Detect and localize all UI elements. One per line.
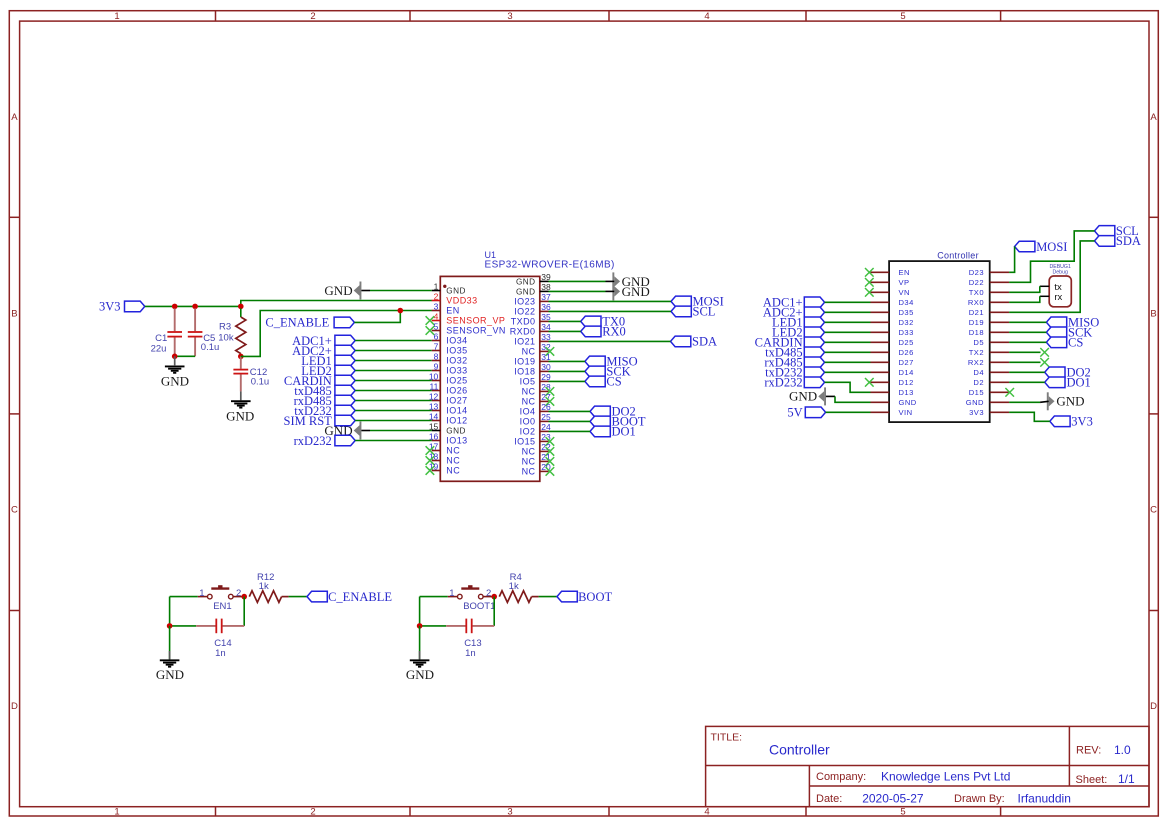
svg-text:VIN: VIN bbox=[899, 408, 913, 417]
wire CARDIN to U1 pin 10 bbox=[355, 380, 432, 382]
junction C1 bottom bbox=[172, 354, 178, 360]
resistor R12 bbox=[249, 591, 281, 603]
svg-text:IO22: IO22 bbox=[514, 307, 535, 317]
port SIM RST bbox=[335, 415, 355, 426]
svg-text:GND: GND bbox=[226, 408, 254, 423]
svg-text:GND: GND bbox=[622, 284, 650, 299]
svg-text:GND: GND bbox=[789, 389, 817, 404]
wire GND flag to controller GND pin bbox=[826, 395, 835, 397]
wire U1 pin 37 to MOSI bbox=[549, 300, 672, 302]
svg-text:8: 8 bbox=[434, 351, 439, 361]
U1 pin 32 NC bbox=[540, 350, 549, 352]
wire EN net from R3 bottom to pin 3 bbox=[241, 311, 432, 357]
junction EN1 node bbox=[241, 594, 247, 600]
svg-text:B: B bbox=[11, 308, 17, 319]
capacitor C1 bbox=[174, 308, 176, 331]
power flag GND at U1 pin 15 bbox=[360, 422, 362, 440]
svg-text:NC: NC bbox=[522, 457, 536, 467]
svg-text:NC: NC bbox=[446, 456, 460, 466]
port SDA bbox=[671, 336, 691, 347]
Controller left pin D33 bbox=[871, 331, 890, 333]
Controller left pin D35 bbox=[871, 311, 890, 313]
wire GND flag to pin 1 bbox=[361, 290, 370, 292]
port DO2 controller bbox=[1045, 367, 1065, 378]
svg-text:GND: GND bbox=[446, 287, 466, 296]
svg-text:IO23: IO23 bbox=[514, 297, 535, 307]
U1 pin 33 IO21 bbox=[540, 340, 549, 342]
svg-text:GND: GND bbox=[161, 373, 189, 388]
port BOOT bbox=[590, 416, 610, 427]
svg-text:EN: EN bbox=[899, 268, 910, 277]
U1 pin 39 GND bbox=[540, 280, 549, 282]
port ADC2+ controller bbox=[804, 307, 824, 318]
svg-text:Controller: Controller bbox=[769, 742, 830, 758]
svg-text:NC: NC bbox=[446, 466, 460, 476]
svg-text:GND: GND bbox=[156, 667, 184, 682]
port ADC2+ bbox=[335, 345, 355, 356]
U1 pin 28 NC bbox=[540, 390, 549, 392]
svg-text:VDD33: VDD33 bbox=[446, 296, 477, 306]
port ADC1+ controller bbox=[804, 297, 824, 308]
Controller right pin RX0 bbox=[990, 301, 1009, 303]
svg-text:1: 1 bbox=[449, 588, 454, 599]
svg-text:Irfanuddin: Irfanuddin bbox=[1018, 792, 1071, 806]
svg-text:Knowledge Lens Pvt Ltd: Knowledge Lens Pvt Ltd bbox=[881, 769, 1010, 783]
svg-text:SCL: SCL bbox=[693, 305, 716, 319]
svg-text:ESP32-WROVER-E(16MB): ESP32-WROVER-E(16MB) bbox=[485, 260, 615, 271]
U1 pin 18 NC bbox=[432, 460, 441, 462]
wire BOOT1 left vertical bbox=[419, 597, 421, 626]
U1 pin 16 IO13 bbox=[432, 440, 441, 442]
U1 pin 22 NC bbox=[540, 450, 549, 452]
wire 3V3 to VDD33 pin 2 bbox=[241, 301, 432, 307]
svg-text:D35: D35 bbox=[899, 308, 914, 317]
svg-text:IO14: IO14 bbox=[446, 406, 467, 416]
U1 pin 27 NC bbox=[540, 400, 549, 402]
svg-text:3: 3 bbox=[507, 806, 512, 817]
Controller left pin D13 bbox=[871, 391, 890, 393]
svg-text:VN: VN bbox=[899, 288, 910, 297]
no-connect X Controller VN bbox=[865, 288, 874, 297]
ground GND EN1 bbox=[169, 626, 171, 659]
svg-text:1n: 1n bbox=[465, 648, 476, 659]
Controller right pin D21 bbox=[990, 311, 1009, 313]
svg-text:1.0: 1.0 bbox=[1114, 743, 1131, 757]
U1 pin 21 NC bbox=[540, 460, 549, 462]
port CARDIN controller bbox=[804, 337, 824, 348]
wire U1 pin 30 to SCK bbox=[549, 370, 585, 372]
wire TX0 to DEBUG1 tx bbox=[1009, 286, 1040, 292]
svg-text:NC: NC bbox=[522, 397, 536, 407]
svg-text:IO34: IO34 bbox=[446, 336, 467, 346]
svg-text:IO25: IO25 bbox=[446, 376, 467, 386]
svg-text:VP: VP bbox=[899, 278, 910, 287]
svg-text:IO32: IO32 bbox=[446, 356, 467, 366]
svg-text:TX2: TX2 bbox=[969, 348, 984, 357]
svg-text:NC: NC bbox=[522, 467, 536, 477]
svg-text:3V3: 3V3 bbox=[99, 300, 121, 314]
pushbutton EN1 bbox=[208, 594, 213, 599]
ground GND below C12 bbox=[240, 391, 242, 400]
Controller left pin D34 bbox=[871, 301, 890, 303]
wire ADC2+ to controller bbox=[825, 311, 871, 313]
pushbutton BOOT1 bbox=[458, 594, 463, 599]
U1 pin 10 IO25 bbox=[432, 380, 441, 382]
port SCL controller bbox=[1095, 226, 1115, 237]
wire controller GND to flag bbox=[1009, 401, 1040, 403]
port LED2 controller bbox=[804, 327, 824, 338]
wire U1 pin 29 to CS bbox=[549, 380, 585, 382]
U1 pin 12 IO27 bbox=[432, 400, 441, 402]
svg-text:GND: GND bbox=[324, 283, 352, 298]
svg-text:IO5: IO5 bbox=[520, 377, 536, 387]
svg-text:2: 2 bbox=[486, 588, 491, 599]
svg-text:EN: EN bbox=[446, 306, 459, 316]
svg-text:CS: CS bbox=[606, 375, 621, 389]
wire 3V3 rail bbox=[145, 305, 241, 307]
svg-text:GND: GND bbox=[966, 398, 984, 407]
svg-text:C1: C1 bbox=[155, 333, 167, 344]
U1 pin 29 IO5 bbox=[540, 380, 549, 382]
svg-text:C_ENABLE: C_ENABLE bbox=[328, 590, 392, 604]
port CS controller bbox=[1046, 337, 1066, 348]
Controller left pin VP bbox=[871, 281, 890, 283]
U1 pin 23 IO15 bbox=[540, 440, 549, 442]
svg-text:4: 4 bbox=[704, 11, 709, 22]
svg-text:IO21: IO21 bbox=[514, 337, 535, 347]
wire BOOT1 pin2 to junction bbox=[483, 596, 494, 598]
port 3V3 controller bbox=[1050, 416, 1070, 427]
svg-text:EN1: EN1 bbox=[213, 601, 231, 612]
svg-text:IO13: IO13 bbox=[446, 436, 467, 446]
svg-text:IO2: IO2 bbox=[520, 427, 536, 437]
Controller right pin D23 bbox=[990, 271, 1009, 273]
svg-text:10k: 10k bbox=[218, 333, 234, 344]
port TX0 bbox=[581, 316, 601, 327]
no-connect X pin 20 bbox=[546, 467, 555, 476]
svg-text:C: C bbox=[1150, 505, 1157, 516]
wire TX2 stub bbox=[1009, 351, 1040, 353]
wire rxD232 to U1 pin 16 bbox=[355, 440, 432, 442]
port ADC1+ bbox=[335, 335, 355, 346]
wire ADC2+ to U1 pin 7 bbox=[355, 350, 432, 352]
U1 pin 8 IO32 bbox=[432, 360, 441, 362]
wire CARDIN to controller bbox=[825, 341, 871, 343]
resistor R4 bbox=[499, 591, 531, 603]
svg-text:D: D bbox=[1150, 701, 1157, 712]
U1 pin 31 IO19 bbox=[540, 360, 549, 362]
no-connect X RX2 bbox=[1040, 358, 1049, 367]
svg-text:1/1: 1/1 bbox=[1118, 772, 1135, 786]
junction BOOT1 node bbox=[491, 594, 497, 600]
no-connect X Controller EN bbox=[865, 268, 874, 277]
port DO2 bbox=[590, 406, 610, 417]
DEBUG1 pin tx bbox=[1040, 285, 1049, 287]
svg-text:2: 2 bbox=[310, 11, 315, 22]
svg-text:D27: D27 bbox=[899, 358, 914, 367]
wire LED1 to controller bbox=[825, 321, 871, 323]
svg-text:GND: GND bbox=[899, 398, 917, 407]
Controller right pin TX2 bbox=[990, 351, 1009, 353]
svg-text:rxD232: rxD232 bbox=[764, 376, 802, 390]
port CARDIN bbox=[335, 375, 355, 386]
no-connect X pin 23 bbox=[546, 437, 555, 446]
svg-text:NC: NC bbox=[522, 347, 536, 357]
svg-text:DO1: DO1 bbox=[1067, 376, 1091, 390]
port DO1 bbox=[590, 426, 610, 437]
power flag GND at U1 pin 39 bbox=[612, 272, 614, 290]
U1 pin 15 GND bbox=[432, 430, 441, 432]
port 3V3 input bbox=[125, 301, 145, 312]
svg-text:1: 1 bbox=[114, 11, 119, 22]
junction EN1 ground node bbox=[167, 623, 173, 629]
svg-text:D32: D32 bbox=[899, 318, 914, 327]
no-connect X pin 17 bbox=[426, 446, 435, 455]
wire EN1 left vertical bbox=[169, 597, 171, 626]
svg-text:3V3: 3V3 bbox=[969, 408, 984, 417]
svg-text:TITLE:: TITLE: bbox=[711, 731, 743, 743]
Controller left pin GND bbox=[871, 401, 890, 403]
svg-text:3V3: 3V3 bbox=[1071, 415, 1093, 429]
wire txD485 to controller bbox=[825, 351, 871, 353]
port txD485 bbox=[335, 385, 355, 396]
svg-text:D13: D13 bbox=[899, 388, 914, 397]
svg-text:5: 5 bbox=[900, 806, 905, 817]
wire txD232 to U1 pin 13 bbox=[355, 410, 432, 412]
junction C5 bbox=[192, 304, 198, 310]
svg-text:1: 1 bbox=[199, 588, 204, 599]
no-connect X pin 28 bbox=[546, 387, 555, 396]
DEBUG1 pin rx bbox=[1040, 295, 1049, 297]
svg-text:IO12: IO12 bbox=[446, 416, 467, 426]
svg-text:B: B bbox=[1150, 308, 1156, 319]
wire R4 to port bbox=[539, 596, 557, 598]
svg-text:RXD0: RXD0 bbox=[510, 327, 536, 337]
svg-text:D23: D23 bbox=[969, 268, 984, 277]
svg-text:1k: 1k bbox=[509, 581, 519, 592]
U1 pin 2 VDD33 bbox=[432, 300, 441, 302]
Controller left pin D32 bbox=[871, 321, 890, 323]
svg-text:Date:: Date: bbox=[816, 793, 842, 805]
Controller left pin D27 bbox=[871, 361, 890, 363]
U1 pin 9 IO33 bbox=[432, 370, 441, 372]
svg-text:RX0: RX0 bbox=[602, 325, 626, 339]
U1 pin 25 IO0 bbox=[540, 420, 549, 422]
svg-text:IO4: IO4 bbox=[520, 407, 536, 417]
wire LED2 to U1 pin 9 bbox=[355, 370, 432, 372]
wire GND flag to pin 15 bbox=[361, 430, 370, 432]
svg-text:Debug: Debug bbox=[1053, 269, 1068, 275]
no-connect X pin 32 bbox=[546, 347, 555, 356]
U1 pin 13 IO14 bbox=[432, 410, 441, 412]
wire ADC1+ to controller bbox=[825, 301, 871, 303]
wire U1 pin 24 to DO1 bbox=[549, 430, 591, 432]
port txD485 controller bbox=[804, 347, 824, 358]
svg-text:D19: D19 bbox=[969, 318, 984, 327]
capacitor C12 bbox=[240, 356, 242, 368]
U1 pin 14 IO12 bbox=[432, 420, 441, 422]
port LED1 bbox=[335, 355, 355, 366]
Controller left pin VIN bbox=[871, 411, 890, 413]
svg-text:D2: D2 bbox=[973, 378, 984, 387]
port rxD232 bbox=[335, 435, 355, 446]
svg-text:4: 4 bbox=[704, 806, 709, 817]
junction R3 bottom bbox=[238, 354, 244, 360]
svg-text:2020-05-27: 2020-05-27 bbox=[862, 792, 924, 806]
U1 pin 20 NC bbox=[540, 470, 549, 472]
svg-text:U1: U1 bbox=[485, 250, 497, 260]
svg-text:1n: 1n bbox=[215, 648, 226, 659]
svg-text:IO15: IO15 bbox=[514, 437, 535, 447]
wire controller to CS bbox=[1009, 341, 1046, 343]
wire LED2 to controller bbox=[825, 331, 871, 333]
wire U1 pin 34 to RX0 bbox=[549, 330, 581, 332]
connector Controller body bbox=[889, 261, 990, 422]
port txD232 bbox=[335, 405, 355, 416]
wire U1 pin 26 to DO2 bbox=[549, 410, 591, 412]
no-connect X pin 4 bbox=[426, 316, 435, 325]
Controller right pin D18 bbox=[990, 331, 1009, 333]
wire controller 3V3 to port bbox=[1009, 412, 1050, 421]
svg-text:Company:: Company: bbox=[816, 771, 866, 783]
no-connect X TX2 bbox=[1040, 348, 1049, 357]
wire SIM RST to U1 pin 14 bbox=[355, 420, 432, 422]
no-connect X pin 18 bbox=[426, 456, 435, 465]
svg-text:3: 3 bbox=[434, 301, 439, 311]
wire D23 to MOSI bbox=[1009, 247, 1015, 273]
no-connect X pin 27 bbox=[546, 397, 555, 406]
svg-text:SENSOR_VP: SENSOR_VP bbox=[446, 316, 505, 326]
wire EN1 right vertical bbox=[243, 597, 245, 626]
svg-text:2: 2 bbox=[236, 588, 241, 599]
wire BOOT1 top left bbox=[420, 596, 448, 598]
svg-text:D22: D22 bbox=[969, 278, 984, 287]
wire RX2 stub bbox=[1009, 361, 1040, 363]
power flag GND controller right bbox=[1047, 392, 1049, 410]
wire U1 pin 36 to SCL bbox=[549, 310, 672, 312]
svg-text:2: 2 bbox=[310, 806, 315, 817]
svg-text:IO18: IO18 bbox=[514, 367, 535, 377]
capacitor C5 bbox=[194, 308, 196, 331]
resistor R3 bbox=[240, 308, 242, 317]
svg-text:5V: 5V bbox=[787, 406, 802, 420]
wire LED1 to U1 pin 8 bbox=[355, 360, 432, 362]
svg-text:1: 1 bbox=[434, 281, 439, 291]
Controller left pin D26 bbox=[871, 351, 890, 353]
svg-text:GND: GND bbox=[446, 427, 466, 436]
svg-text:2: 2 bbox=[434, 291, 439, 301]
U1 pin 35 TXD0 bbox=[540, 320, 549, 322]
svg-text:D: D bbox=[11, 701, 18, 712]
svg-text:RX0: RX0 bbox=[968, 298, 984, 307]
capacitor C13 bbox=[420, 625, 447, 627]
svg-text:NC: NC bbox=[446, 446, 460, 456]
port 5V bbox=[805, 407, 825, 418]
wire txD232 to controller bbox=[825, 371, 871, 373]
svg-text:NC: NC bbox=[522, 387, 536, 397]
Controller right pin D15 bbox=[990, 391, 1009, 393]
svg-text:5: 5 bbox=[434, 321, 439, 331]
capacitor C14 bbox=[170, 625, 197, 627]
port rxD485 controller bbox=[804, 357, 824, 368]
svg-text:IO26: IO26 bbox=[446, 386, 467, 396]
svg-text:0.1u: 0.1u bbox=[251, 376, 270, 387]
junction BOOT1 ground node bbox=[417, 623, 423, 629]
wire U1 pin 35 to TX0 bbox=[549, 320, 581, 322]
wire U1 pin 33 to SDA bbox=[549, 340, 671, 342]
U1 pin 36 IO22 bbox=[540, 310, 549, 312]
U1 pin 1 marker dot bbox=[443, 285, 446, 288]
wire RX0 to DEBUG1 rx bbox=[1009, 296, 1040, 302]
port SCK controller bbox=[1046, 327, 1066, 338]
junction C_ENABLE EN bbox=[398, 308, 404, 314]
svg-text:SIM RST: SIM RST bbox=[284, 414, 333, 428]
Controller right pin D22 bbox=[990, 281, 1009, 283]
svg-text:1k: 1k bbox=[259, 581, 269, 592]
svg-text:D21: D21 bbox=[969, 308, 984, 317]
port MOSI bbox=[671, 296, 691, 307]
svg-text:REV:: REV: bbox=[1076, 745, 1101, 757]
svg-text:Sheet:: Sheet: bbox=[1076, 774, 1108, 786]
Controller right pin D4 bbox=[990, 371, 1009, 373]
svg-text:C: C bbox=[11, 505, 18, 516]
svg-text:DO1: DO1 bbox=[612, 425, 636, 439]
U1 pin 7 IO35 bbox=[432, 350, 441, 352]
svg-text:D12: D12 bbox=[899, 378, 914, 387]
U1 pin 34 RXD0 bbox=[540, 330, 549, 332]
svg-text:7: 7 bbox=[434, 341, 439, 351]
svg-text:rx: rx bbox=[1054, 292, 1062, 303]
svg-text:SENSOR_VN: SENSOR_VN bbox=[446, 326, 506, 336]
svg-text:IO27: IO27 bbox=[446, 396, 467, 406]
no-connect X Controller D12 bbox=[865, 378, 874, 387]
svg-text:4: 4 bbox=[434, 311, 439, 321]
wire rxD485 to U1 pin 12 bbox=[355, 400, 432, 402]
wire U1 pin 25 to BOOT bbox=[549, 420, 591, 422]
Controller right pin 3V3 bbox=[990, 411, 1009, 413]
wire R12 to port bbox=[289, 596, 307, 598]
component DEBUG1 Debug bbox=[1049, 276, 1071, 307]
svg-text:0.1u: 0.1u bbox=[201, 342, 220, 353]
Controller right pin TX0 bbox=[990, 291, 1009, 293]
wire 5V to VIN bbox=[826, 411, 871, 413]
svg-text:D25: D25 bbox=[899, 338, 914, 347]
no-connect X Controller VP bbox=[865, 278, 874, 287]
svg-text:IO35: IO35 bbox=[446, 346, 467, 356]
Controller left pin D12 bbox=[871, 381, 890, 383]
U1 pin 26 IO4 bbox=[540, 410, 549, 412]
svg-text:BOOT: BOOT bbox=[578, 590, 612, 604]
wire pin 39 to GND flag bbox=[549, 280, 606, 282]
svg-text:A: A bbox=[11, 112, 18, 123]
Controller left pin EN bbox=[871, 271, 890, 273]
svg-text:R3: R3 bbox=[219, 321, 231, 332]
U1 pin 11 IO26 bbox=[432, 390, 441, 392]
svg-text:D18: D18 bbox=[969, 328, 984, 337]
port DO1 controller bbox=[1045, 377, 1065, 388]
wire EN1 pin2 to junction bbox=[233, 596, 244, 598]
port CS bbox=[585, 376, 605, 387]
port LED2 bbox=[335, 365, 355, 376]
svg-text:IO0: IO0 bbox=[520, 417, 536, 427]
wire txD485 to U1 pin 11 bbox=[355, 390, 432, 392]
no-connect X pin 5 bbox=[426, 326, 435, 335]
wire U1 pin 31 to MISO bbox=[549, 360, 585, 362]
svg-text:22u: 22u bbox=[151, 344, 167, 355]
U1 pin 5 SENSOR_VN bbox=[432, 330, 441, 332]
svg-text:D5: D5 bbox=[973, 338, 984, 347]
port SCK bbox=[585, 366, 605, 377]
